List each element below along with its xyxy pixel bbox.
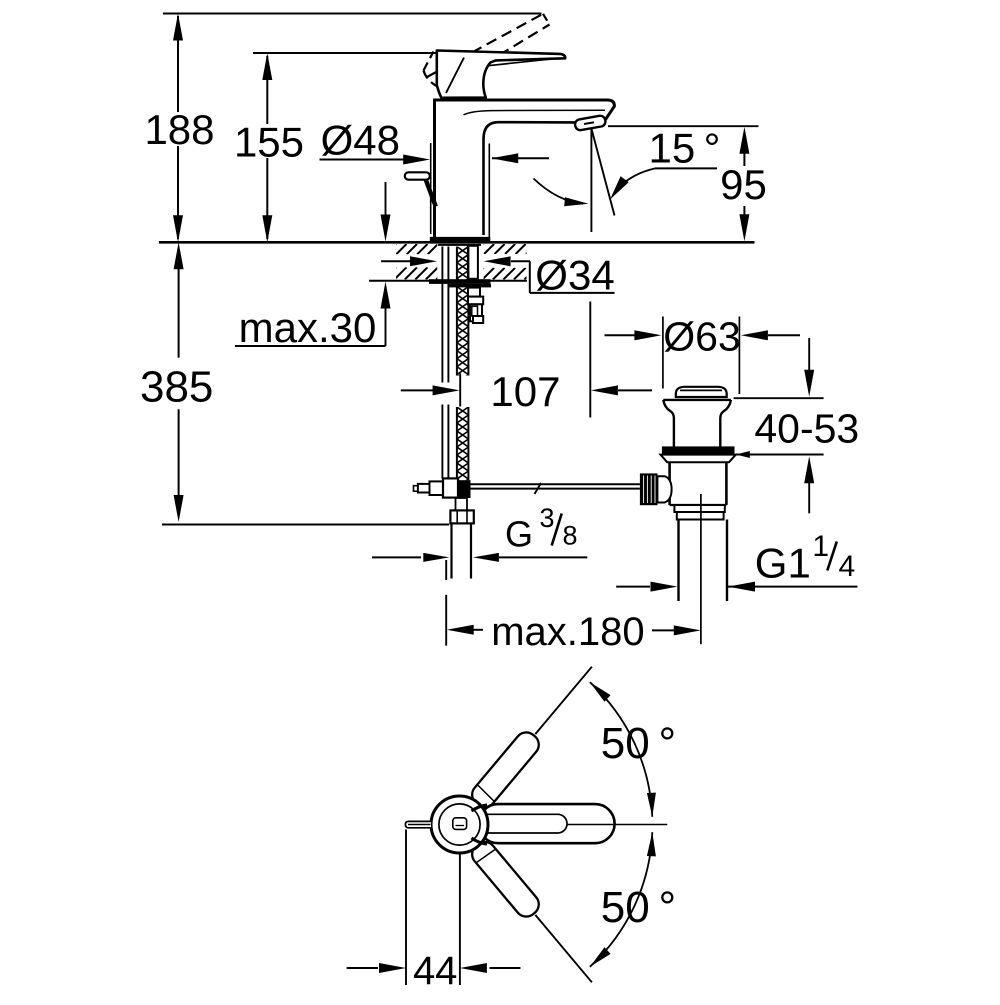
drain bell flange <box>663 399 731 401</box>
faucet base plate <box>430 237 491 242</box>
15 degree stream lines <box>590 129 592 233</box>
dimension max.180 <box>445 560 447 580</box>
hose neck <box>456 498 468 510</box>
top view: 50 degree swing rays <box>535 667 592 734</box>
mounting shank top line <box>438 244 481 246</box>
hose crimp sleeve <box>452 480 471 498</box>
reference line: top of raised lever (188 level) <box>163 13 542 15</box>
drain tailpipe <box>677 520 679 602</box>
top view: handle inner contour <box>466 814 567 833</box>
pop-up rod guide bracket <box>468 288 480 297</box>
svg-text:95: 95 <box>720 161 767 208</box>
svg-text:Ø63: Ø63 <box>663 314 741 360</box>
knurled adjusting knob <box>640 473 658 505</box>
svg-text:Ø48: Ø48 <box>321 116 400 163</box>
dimension 95 vertical <box>608 125 759 127</box>
svg-text:max.30: max.30 <box>239 304 377 351</box>
top view: 50 degree dimension arcs <box>590 682 652 817</box>
top view: handle (normal position) <box>479 804 615 843</box>
svg-text:188: 188 <box>144 106 214 153</box>
rod connector boss <box>657 476 671 502</box>
braided flexible supply hose <box>457 239 469 391</box>
mounting washer <box>429 279 491 284</box>
dimension max.30 counter thickness <box>385 182 387 216</box>
svg-text:8: 8 <box>562 521 577 551</box>
svg-text:44: 44 <box>413 949 458 993</box>
pop-up vertical rod <box>441 247 443 383</box>
G3/8 hex nut <box>450 510 473 523</box>
drain slip joint bands <box>674 505 724 512</box>
aerator outlet <box>574 115 606 131</box>
svg-text:G: G <box>505 514 533 555</box>
mounting locknut <box>448 284 492 288</box>
svg-text:15 °: 15 ° <box>649 125 721 172</box>
svg-text:107: 107 <box>490 368 560 415</box>
dimension 40-53 <box>734 397 824 399</box>
svg-text:4: 4 <box>839 550 856 583</box>
svg-text:155: 155 <box>234 119 304 166</box>
top view: faucet body circle <box>431 796 488 853</box>
svg-text:1: 1 <box>812 530 829 563</box>
top view: centerline <box>408 824 431 826</box>
dimension 107 spout projection <box>459 374 461 407</box>
385 bottom reference line <box>162 524 449 526</box>
dimension Ø34 mounting hole <box>381 260 410 262</box>
reference line: top of lever (155 level) <box>253 52 437 54</box>
svg-text:max.180: max.180 <box>491 610 644 654</box>
top view: handle junction ticks <box>472 805 488 811</box>
rod coupling <box>414 486 419 492</box>
hose tail tube <box>450 523 452 578</box>
horizontal pop-up rod <box>457 483 640 485</box>
dashed raised lever outline <box>427 14 543 77</box>
top view: logo mark <box>453 818 467 830</box>
svg-text:385: 385 <box>140 362 213 411</box>
drain push cap <box>676 387 727 397</box>
svg-text:3: 3 <box>539 503 554 533</box>
top view: rotated handle positions <box>468 728 544 812</box>
dimension 385 vertical <box>174 242 184 269</box>
drain valve body <box>668 462 671 505</box>
drain centerline <box>700 494 702 644</box>
top view: pop-up rod tab <box>405 821 431 827</box>
drain seat rim <box>661 455 736 463</box>
faucet lever handle (solid) <box>437 51 565 98</box>
svg-text:50 °: 50 ° <box>601 883 676 932</box>
svg-text:40-53: 40-53 <box>754 406 859 452</box>
dimension 188 vertical <box>177 16 179 112</box>
svg-text:Ø34: Ø34 <box>535 252 614 299</box>
dimension 44 <box>405 830 407 986</box>
drain rubber washer <box>662 446 735 454</box>
15 degree arc with arrow <box>534 179 584 204</box>
svg-text:50 °: 50 ° <box>601 719 676 768</box>
dimension 155 vertical <box>266 56 268 124</box>
spout inner contour line <box>464 110 606 115</box>
svg-text:G1: G1 <box>755 540 811 587</box>
counter underside line <box>369 280 527 282</box>
dimension Ø63 <box>662 317 664 389</box>
threaded shank <box>468 246 478 279</box>
faucet body outline <box>433 99 436 238</box>
pop-up drain lever knob <box>405 172 430 179</box>
countertop line <box>159 241 755 244</box>
countertop hatched cross-section <box>354 244 448 254</box>
